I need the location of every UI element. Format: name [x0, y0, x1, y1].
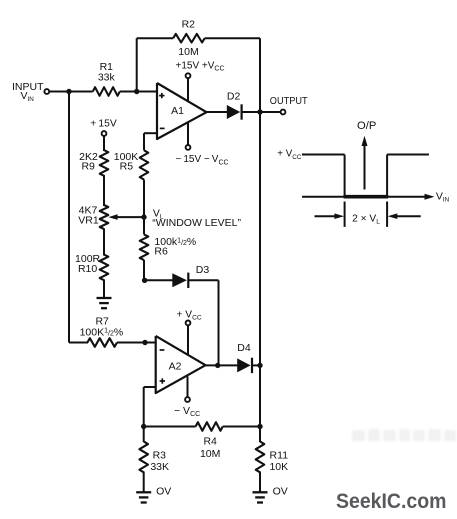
svg-text:33k: 33k	[98, 71, 116, 83]
svg-text:OV: OV	[156, 485, 171, 497]
svg-text:O/P: O/P	[357, 120, 376, 132]
svg-text:33K: 33K	[150, 461, 169, 473]
svg-text:+ 15V: + 15V	[90, 119, 117, 130]
svg-text:R5: R5	[120, 161, 134, 173]
svg-text:D4: D4	[237, 342, 251, 354]
svg-text:A1: A1	[171, 105, 184, 117]
svg-text:R2: R2	[182, 19, 196, 31]
svg-text:10M: 10M	[200, 448, 220, 460]
svg-text:R6: R6	[154, 246, 168, 258]
svg-text:OUTPUT: OUTPUT	[270, 95, 308, 107]
svg-text:INPUT: INPUT	[12, 81, 44, 93]
svg-text:100K1/2%: 100K1/2%	[80, 327, 124, 339]
svg-text:SeekIC.com: SeekIC.com	[336, 490, 447, 513]
svg-text:2 × VL: 2 × VL	[352, 213, 380, 225]
svg-text:R9: R9	[81, 161, 95, 173]
svg-text:10M: 10M	[178, 46, 198, 58]
svg-text:R11: R11	[270, 449, 289, 461]
svg-text:“WINDOW LEVEL”: “WINDOW LEVEL”	[152, 217, 241, 229]
svg-text:10K: 10K	[269, 461, 288, 473]
svg-text:OV: OV	[273, 485, 288, 497]
svg-text:A2: A2	[169, 361, 182, 373]
svg-text:R4: R4	[203, 435, 217, 447]
svg-text:R3: R3	[153, 449, 167, 461]
svg-text:D3: D3	[196, 264, 210, 276]
svg-text:R10: R10	[78, 263, 97, 275]
svg-text:D2: D2	[227, 91, 241, 103]
svg-text:VR1: VR1	[78, 214, 99, 226]
